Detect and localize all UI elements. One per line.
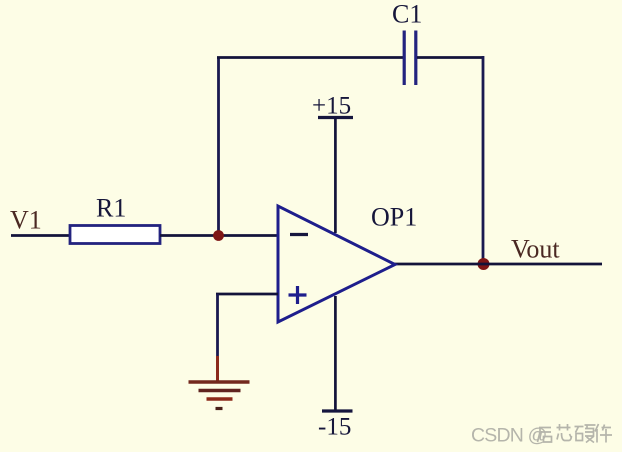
svg-text:Vout: Vout <box>511 235 560 264</box>
svg-text:-15: -15 <box>318 414 351 441</box>
wire: ground lead (red part) <box>216 356 219 382</box>
power +15 bar <box>318 116 353 119</box>
watermark CJK glyphs <box>538 424 613 443</box>
svg-text:V1: V1 <box>10 206 42 235</box>
wire: feedback left vertical <box>217 58 220 237</box>
ground <box>189 382 250 409</box>
op-amp U1 triangle <box>278 206 395 322</box>
wire: V1 input to R1 <box>11 234 70 237</box>
power -15 bar <box>322 409 353 412</box>
node B: output junction <box>478 258 490 270</box>
wire: op-amp bottom to -15 supply <box>334 296 337 411</box>
node A: inverting input junction <box>213 230 224 241</box>
op-amp plus pin mark <box>289 286 307 304</box>
capacitor C1 <box>404 31 416 86</box>
wire: non-inverting input down to ground (navy part) <box>216 294 219 356</box>
wire: C1 to right vertical <box>417 56 484 59</box>
wire: +15 supply to op-amp top <box>334 118 337 234</box>
resistor R1 <box>70 226 160 244</box>
wire: output to Vout <box>394 263 602 266</box>
svg-text:CSDN @: CSDN @ <box>471 425 547 447</box>
svg-text:C1: C1 <box>392 0 422 29</box>
svg-text:OP1: OP1 <box>371 203 417 232</box>
wire: feedback top horizontal to C1 <box>217 56 403 59</box>
wire: non-inverting input horizontal <box>216 293 278 296</box>
op-amp minus pin mark <box>290 233 308 236</box>
wire: feedback right vertical down to output <box>482 56 485 264</box>
svg-text:R1: R1 <box>96 194 126 223</box>
svg-text:+15: +15 <box>312 93 351 120</box>
wire: R1 to inverting input <box>160 234 278 237</box>
